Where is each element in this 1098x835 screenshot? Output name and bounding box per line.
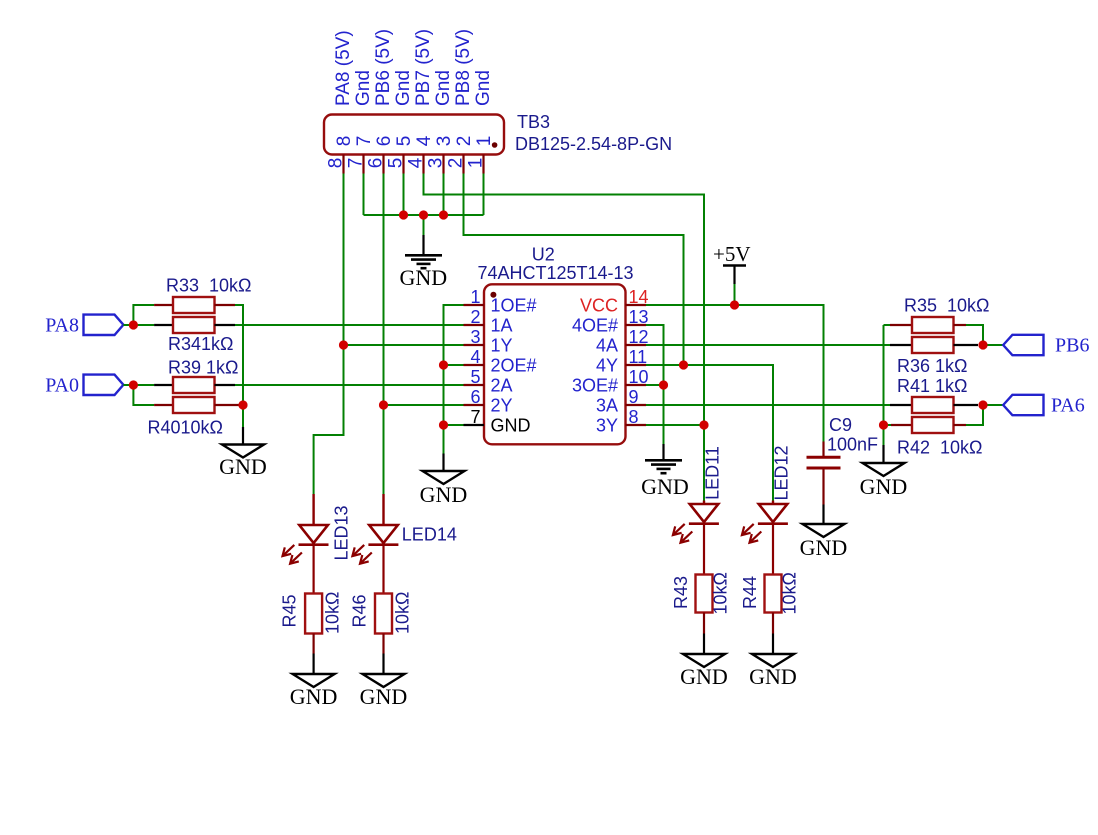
- wire pin4 junction down to pin7: [443, 365, 445, 425]
- svg-text:PA6: PA6: [1051, 395, 1085, 417]
- TB3 outside pin number 5: [386, 158, 407, 169]
- U2 pin 14 stub: [626, 304, 647, 306]
- U2 pin 10 stub: [626, 384, 647, 386]
- svg-text:2A: 2A: [491, 376, 513, 396]
- svg-text:LED14: LED14: [402, 525, 457, 545]
- svg-text:2OE#: 2OE#: [491, 356, 537, 376]
- svg-text:7: 7: [354, 136, 375, 147]
- net label Gnd pin5: [393, 70, 414, 106]
- U2 pin number 11: [629, 347, 648, 367]
- svg-text:Gnd: Gnd: [353, 70, 374, 106]
- wire R35 right down to PB6 junction: [966, 325, 983, 345]
- wire 2Y junction down to LED14: [383, 405, 385, 494]
- wire PA8 junction up and right to R33: [133, 305, 154, 325]
- wire LED12 to R44: [772, 524, 774, 575]
- TB3 outside pin number 1: [466, 158, 487, 169]
- svg-text:Gnd: Gnd: [433, 70, 454, 106]
- TB3 inside pin number 3: [434, 136, 455, 147]
- U2 pin label 1Y: [491, 336, 513, 356]
- TB3 inside pin number 7: [354, 136, 375, 147]
- wire +5V stem to VCC line: [734, 284, 736, 305]
- U2 pin number 13: [629, 307, 649, 327]
- wire junction to PB6 port: [983, 344, 1003, 346]
- TB3 pin stub 2: [462, 155, 464, 174]
- svg-text:3A: 3A: [596, 396, 618, 416]
- svg-text:R33 10kΩ: R33 10kΩ: [166, 276, 252, 296]
- svg-text:LED13: LED13: [332, 505, 352, 560]
- svg-text:2Y: 2Y: [491, 396, 513, 416]
- svg-text:R43: R43: [671, 576, 691, 609]
- wire pin3 junction to stub: [344, 344, 464, 346]
- resistor R35: [884, 296, 990, 334]
- power +5V symbol: [713, 242, 751, 284]
- svg-text:1: 1: [470, 287, 480, 307]
- wire pin10 junction to stub: [646, 384, 664, 386]
- svg-text:3Y: 3Y: [596, 416, 618, 436]
- svg-text:R45: R45: [280, 594, 300, 627]
- TB3 inside pin number 8: [334, 136, 355, 147]
- TB3 inside pin number 1: [474, 136, 495, 147]
- U2 pin number 14 (red): [629, 287, 649, 307]
- ground symbol under R43 (triangle): [680, 634, 728, 690]
- IC U2 body: [484, 284, 626, 444]
- svg-text:3OE#: 3OE#: [572, 376, 618, 396]
- svg-text:R41 1kΩ: R41 1kΩ: [897, 376, 968, 396]
- svg-text:1Y: 1Y: [491, 336, 513, 356]
- svg-text:PB8 (5V): PB8 (5V): [453, 29, 474, 106]
- svg-text:10kΩ: 10kΩ: [393, 592, 413, 634]
- svg-text:DB125-2.54-8P-GN: DB125-2.54-8P-GN: [515, 134, 672, 154]
- svg-text:R341kΩ: R341kΩ: [168, 334, 234, 354]
- svg-text:1OE#: 1OE#: [491, 296, 537, 316]
- wire R39 to U2 pin 5: [235, 384, 464, 386]
- TB3 outside pin number 3: [426, 158, 447, 169]
- svg-text:R36 1kΩ: R36 1kΩ: [897, 356, 968, 376]
- wire TB3 pin2 route to 4Y junction: [464, 174, 684, 366]
- svg-text:PA8: PA8: [45, 315, 79, 337]
- wire TB3 pin3 down to gnd bus: [443, 174, 445, 216]
- svg-text:GND: GND: [420, 482, 468, 507]
- svg-text:R39 1kΩ: R39 1kΩ: [168, 358, 239, 378]
- TB3 inside pin number 2: [454, 136, 475, 147]
- U2 pin number 6: [470, 387, 480, 407]
- net label PB8 (5V): [453, 29, 474, 106]
- U2 pin 6 stub: [464, 404, 485, 406]
- TB3 outside pin number 7: [346, 158, 367, 169]
- wire U2 pin13 down to ground: [646, 325, 664, 444]
- svg-text:LED11: LED11: [703, 446, 723, 500]
- U2 pin 3 stub: [464, 344, 485, 346]
- U2 pin number 12: [629, 327, 649, 347]
- wire TB3 pin8 down to U2 1Y junction: [343, 174, 345, 346]
- wire 1Y jog down to LED13: [314, 345, 344, 494]
- net label Gnd pin1: [473, 70, 494, 106]
- svg-text:GND: GND: [290, 684, 338, 709]
- junction U2 pin6 / LED14: [379, 401, 388, 410]
- wire PA0 port to junction: [123, 384, 133, 386]
- svg-text:5: 5: [470, 367, 480, 387]
- U2 pin label 2Y: [491, 396, 513, 416]
- svg-text:Gnd: Gnd: [393, 70, 414, 106]
- ground symbol under R45 (triangle): [290, 654, 338, 710]
- U2 pin number 10: [629, 367, 649, 387]
- resistor R46: [350, 592, 413, 654]
- junction +5V / VCC: [730, 301, 739, 310]
- wire R35 pullup vertical: [883, 325, 885, 425]
- ground symbol under R40 (triangle): [219, 427, 267, 479]
- U2 pin 4 stub: [464, 364, 485, 366]
- wire U2 pin11 to 4Y junction and LED12 column: [646, 365, 773, 501]
- resistor R41: [890, 376, 978, 413]
- junction U2 pin4: [439, 361, 448, 370]
- TB3 value label DB125-2.54-8P-GN: [515, 134, 672, 154]
- net label Gnd pin3: [433, 70, 454, 106]
- U2 pin 1 stub: [464, 304, 485, 306]
- wire R42 right up to PA6 junction: [966, 405, 983, 425]
- wire U2 pin12 to R36 (PB6 row): [646, 344, 890, 346]
- wire PA0 junction down to R40: [133, 385, 154, 405]
- TB3 inside pin number 5: [394, 136, 415, 147]
- U2 pin1 marker dot: [490, 292, 496, 298]
- svg-text:8: 8: [629, 407, 639, 427]
- TB3 inside pin number 6: [374, 136, 395, 147]
- resistor R36: [890, 337, 978, 376]
- svg-text:2: 2: [470, 307, 480, 327]
- svg-text:PB6 (5V): PB6 (5V): [373, 29, 394, 106]
- svg-text:4: 4: [470, 347, 480, 367]
- svg-text:100nF: 100nF: [827, 435, 878, 455]
- wire TB3 pin4 route to LED11 column: [424, 174, 705, 426]
- ground symbol under R46 (triangle): [360, 654, 408, 710]
- U2 pin label 3Y: [596, 416, 618, 436]
- wire pin4 junction to stub: [444, 364, 464, 366]
- U2 pin number 2: [470, 307, 480, 327]
- svg-text:PA0: PA0: [45, 375, 79, 397]
- U2 pin number 4: [470, 347, 480, 367]
- wire pin7 junction down to ground: [443, 425, 445, 454]
- svg-text:GND: GND: [749, 664, 797, 689]
- svg-text:4Y: 4Y: [596, 356, 618, 376]
- svg-text:12: 12: [629, 327, 649, 347]
- wire R42 junction down to ground: [883, 425, 885, 445]
- svg-text:1: 1: [466, 158, 487, 169]
- resistor R45: [280, 592, 343, 654]
- wire junction to U2 pin 6: [384, 404, 464, 406]
- connector TB3 body: [324, 115, 504, 155]
- resistor R33: [154, 276, 251, 314]
- svg-text:R4010kΩ: R4010kΩ: [148, 418, 224, 438]
- port PA6: [1003, 395, 1085, 417]
- U2 pin label 4Y: [596, 356, 618, 376]
- U2 pin label 4A: [596, 336, 618, 356]
- junction bus gnd stem: [419, 211, 428, 220]
- TB3 pin stub 6: [382, 155, 384, 174]
- svg-text:TB3: TB3: [517, 112, 550, 132]
- wire gnd bus horizontal: [364, 214, 484, 216]
- svg-text:GND: GND: [641, 474, 689, 499]
- junction U2 pin3 / LED13: [339, 341, 348, 350]
- U2 pin number 8: [629, 407, 639, 427]
- wire junction down to ground: [242, 405, 244, 427]
- svg-text:+5V: +5V: [713, 242, 751, 266]
- port PB6: [1003, 335, 1089, 357]
- U2 pin label 2A: [491, 376, 513, 396]
- TB3 outside pin number 2: [446, 158, 467, 169]
- U2 pin 11 stub: [626, 364, 647, 366]
- net label PA8 (5V): [333, 30, 354, 106]
- svg-text:PB7 (5V): PB7 (5V): [413, 29, 434, 106]
- U2 pin 7 stub (GND, black): [464, 424, 485, 426]
- TB3 pin stub 3: [442, 155, 444, 174]
- TB3 inside pin number 4: [414, 135, 435, 146]
- U2 pin label 4OE#: [572, 316, 618, 336]
- LED LED12: [742, 445, 792, 542]
- svg-text:GND: GND: [399, 265, 447, 290]
- svg-text:14: 14: [629, 287, 649, 307]
- resistor R43: [671, 572, 731, 633]
- wire PA8 port to junction: [123, 324, 133, 326]
- svg-text:GND: GND: [680, 664, 728, 689]
- TB3 reference label: [517, 112, 550, 132]
- U2 pin 9 stub: [626, 404, 647, 406]
- U2 pin 13 stub: [626, 324, 647, 326]
- svg-text:1: 1: [474, 136, 495, 147]
- LED LED11: [673, 446, 723, 543]
- junction R42 / 3Y: [879, 421, 888, 430]
- TB3 pin stub 7: [362, 155, 364, 174]
- junction node R40 / 2Y / GND: [239, 401, 248, 410]
- junction bus pin5: [399, 211, 408, 220]
- resistor R34: [154, 317, 235, 354]
- LED LED13: [283, 494, 352, 564]
- svg-text:GND: GND: [219, 454, 267, 479]
- svg-text:R44: R44: [740, 576, 760, 609]
- svg-text:VCC: VCC: [580, 296, 618, 316]
- TB3 pin stub 4: [422, 155, 424, 174]
- svg-text:3: 3: [426, 158, 447, 169]
- wire U2 pin9 to R41 (PA6 row): [646, 404, 890, 406]
- svg-text:10kΩ: 10kΩ: [323, 592, 343, 634]
- svg-text:10: 10: [629, 367, 649, 387]
- junction U2 pin7: [439, 421, 448, 430]
- junction U2 pin8 / LED11: [700, 421, 709, 430]
- U2 pin label VCC (red): [580, 296, 618, 316]
- wire PA8 junction to R34: [133, 324, 154, 326]
- wire LED11 to R43: [703, 524, 705, 575]
- svg-text:R35 10kΩ: R35 10kΩ: [904, 296, 990, 316]
- U2 pin number 1: [470, 287, 480, 307]
- svg-text:R46: R46: [350, 594, 370, 627]
- svg-text:6: 6: [366, 158, 387, 169]
- net label PB7 (5V): [413, 29, 434, 106]
- U2 pin number 3: [470, 327, 480, 347]
- junction U2 pin11 / PB8: [679, 361, 688, 370]
- ground symbol under TB3 (earth bars): [399, 235, 447, 290]
- wire TB3 pin5 down to gnd bus: [403, 174, 405, 216]
- svg-text:Gnd: Gnd: [473, 70, 494, 106]
- wire junction to PA6 port: [983, 404, 1003, 406]
- svg-text:U2: U2: [532, 245, 555, 265]
- U2 pin 2 stub: [464, 324, 485, 326]
- svg-text:13: 13: [629, 307, 649, 327]
- svg-text:R42 10kΩ: R42 10kΩ: [897, 438, 983, 458]
- TB3 outside pin number 8: [326, 158, 347, 169]
- junction bus pin3: [439, 211, 448, 220]
- wire R33 to pulldown vertical: [235, 305, 243, 405]
- U2 reference label: [532, 245, 555, 265]
- ground symbol under U2 pin7 (triangle): [420, 454, 468, 508]
- U2 pin label 3OE#: [572, 376, 618, 396]
- svg-text:6: 6: [374, 136, 395, 147]
- ground symbol right (triangle): [860, 445, 908, 499]
- wire gnd stem below bus: [423, 215, 425, 235]
- wire U2 pin8 3Y row to R42 junction: [646, 424, 704, 426]
- U2 pin number 9: [629, 387, 639, 407]
- svg-text:4OE#: 4OE#: [572, 316, 618, 336]
- ground symbol under pin13 (earth bars): [641, 444, 689, 499]
- svg-text:GND: GND: [491, 416, 531, 436]
- U2 pin label 2OE#: [491, 356, 537, 376]
- svg-text:C9: C9: [829, 415, 852, 435]
- U2 pin 12 stub: [626, 344, 647, 346]
- junction U2 pin10: [659, 381, 668, 390]
- svg-text:4A: 4A: [596, 336, 618, 356]
- wire LED14 to R46: [382, 545, 384, 594]
- svg-text:2: 2: [454, 136, 475, 147]
- svg-text:4: 4: [406, 157, 427, 168]
- svg-text:3: 3: [470, 327, 480, 347]
- junction PB6: [979, 341, 988, 350]
- U2 pin label 1OE#: [491, 296, 537, 316]
- net label PB6 (5V): [373, 29, 394, 106]
- svg-text:3: 3: [434, 136, 455, 147]
- wire LED13 to R45: [313, 545, 315, 594]
- svg-text:5: 5: [394, 136, 415, 147]
- port PA8: [45, 315, 123, 337]
- svg-text:9: 9: [629, 387, 639, 407]
- wire LED11 column below junction: [703, 425, 705, 501]
- U2 pin number 5: [470, 367, 480, 387]
- junction dots top layer: [129, 210, 988, 429]
- svg-text:6: 6: [470, 387, 480, 407]
- svg-text:GND: GND: [860, 474, 908, 499]
- svg-text:11: 11: [629, 347, 648, 367]
- net label Gnd pin7: [353, 70, 374, 106]
- svg-text:LED12: LED12: [772, 445, 792, 500]
- svg-text:74AHCT125T14-13: 74AHCT125T14-13: [477, 263, 633, 283]
- svg-text:7: 7: [470, 407, 480, 427]
- ground symbol under C9 (triangle): [800, 505, 848, 561]
- U2 pin label 1A: [491, 316, 513, 336]
- svg-text:10kΩ: 10kΩ: [711, 572, 731, 614]
- svg-text:PB6: PB6: [1055, 335, 1089, 357]
- junction node PA0: [129, 381, 137, 389]
- U2 pin 8 stub: [626, 424, 647, 426]
- wire TB3 pin7 down to gnd bus: [363, 174, 365, 216]
- svg-text:1A: 1A: [491, 316, 513, 336]
- svg-text:8: 8: [334, 136, 355, 147]
- svg-text:7: 7: [346, 158, 367, 169]
- wire pin7 junction to stub: [444, 424, 464, 426]
- TB3 pin stub 5: [402, 155, 404, 174]
- svg-text:GND: GND: [360, 684, 408, 709]
- svg-text:GND: GND: [800, 535, 848, 560]
- svg-text:10kΩ: 10kΩ: [780, 572, 800, 614]
- LED LED14: [352, 494, 456, 564]
- svg-text:8: 8: [326, 158, 347, 169]
- TB3 outside pin number 4: [406, 157, 427, 168]
- ground symbol under R44 (triangle): [749, 634, 797, 690]
- U2 pin number 7 (black): [470, 407, 480, 427]
- wire U2 pin1 to OE gnd vertical: [444, 305, 464, 365]
- resistor R40: [148, 397, 241, 438]
- TB3 pin stub 8: [342, 155, 344, 174]
- U2 value label 74AHCT125T14-13: [477, 263, 633, 283]
- svg-text:4: 4: [414, 135, 435, 146]
- wire TB3 pin6 down to 2Y junction: [383, 174, 385, 406]
- wire PA0 junction to R39: [133, 384, 154, 386]
- U2 pin 5 stub: [464, 384, 485, 386]
- wire R34 to U2 pin 2: [235, 324, 464, 326]
- resistor R42: [884, 417, 983, 458]
- U2 pin label GND (black): [491, 416, 531, 436]
- TB3 pin stub 1: [482, 155, 484, 174]
- port PA0: [45, 375, 123, 397]
- TB3 outside pin number 6: [366, 158, 387, 169]
- junction node PA8: [129, 321, 137, 329]
- junction PA6: [979, 401, 988, 410]
- wire TB3 pin1 down to gnd bus: [483, 174, 485, 216]
- TB3 pin-1 marker dot: [492, 142, 498, 148]
- svg-text:2: 2: [446, 158, 467, 169]
- U2 pin label 3A: [596, 396, 618, 416]
- resistor R44: [740, 572, 800, 633]
- svg-text:PA8 (5V): PA8 (5V): [333, 30, 354, 106]
- resistor R39: [154, 358, 238, 394]
- wire U2 pin14 VCC to C9 column: [646, 305, 824, 442]
- svg-text:5: 5: [386, 158, 407, 169]
- capacitor C9: [807, 415, 879, 505]
